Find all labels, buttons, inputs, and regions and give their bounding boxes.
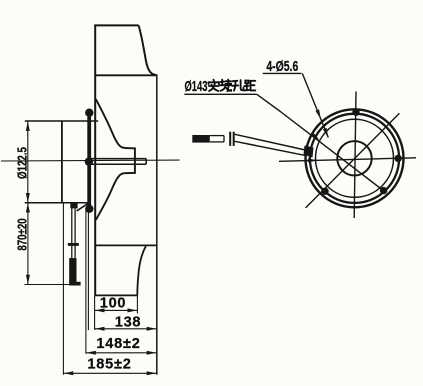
svg-text:148±2: 148±2 (96, 336, 140, 352)
svg-text:138: 138 (115, 314, 142, 330)
svg-text:100: 100 (100, 295, 127, 311)
svg-text:185±2: 185±2 (87, 356, 131, 372)
svg-text:Ø143: Ø143 (184, 78, 207, 95)
svg-text:Ø122.5: Ø122.5 (16, 147, 30, 179)
svg-text:4-Ø5.6: 4-Ø5.6 (266, 59, 298, 75)
svg-text:870±20: 870±20 (16, 218, 30, 250)
